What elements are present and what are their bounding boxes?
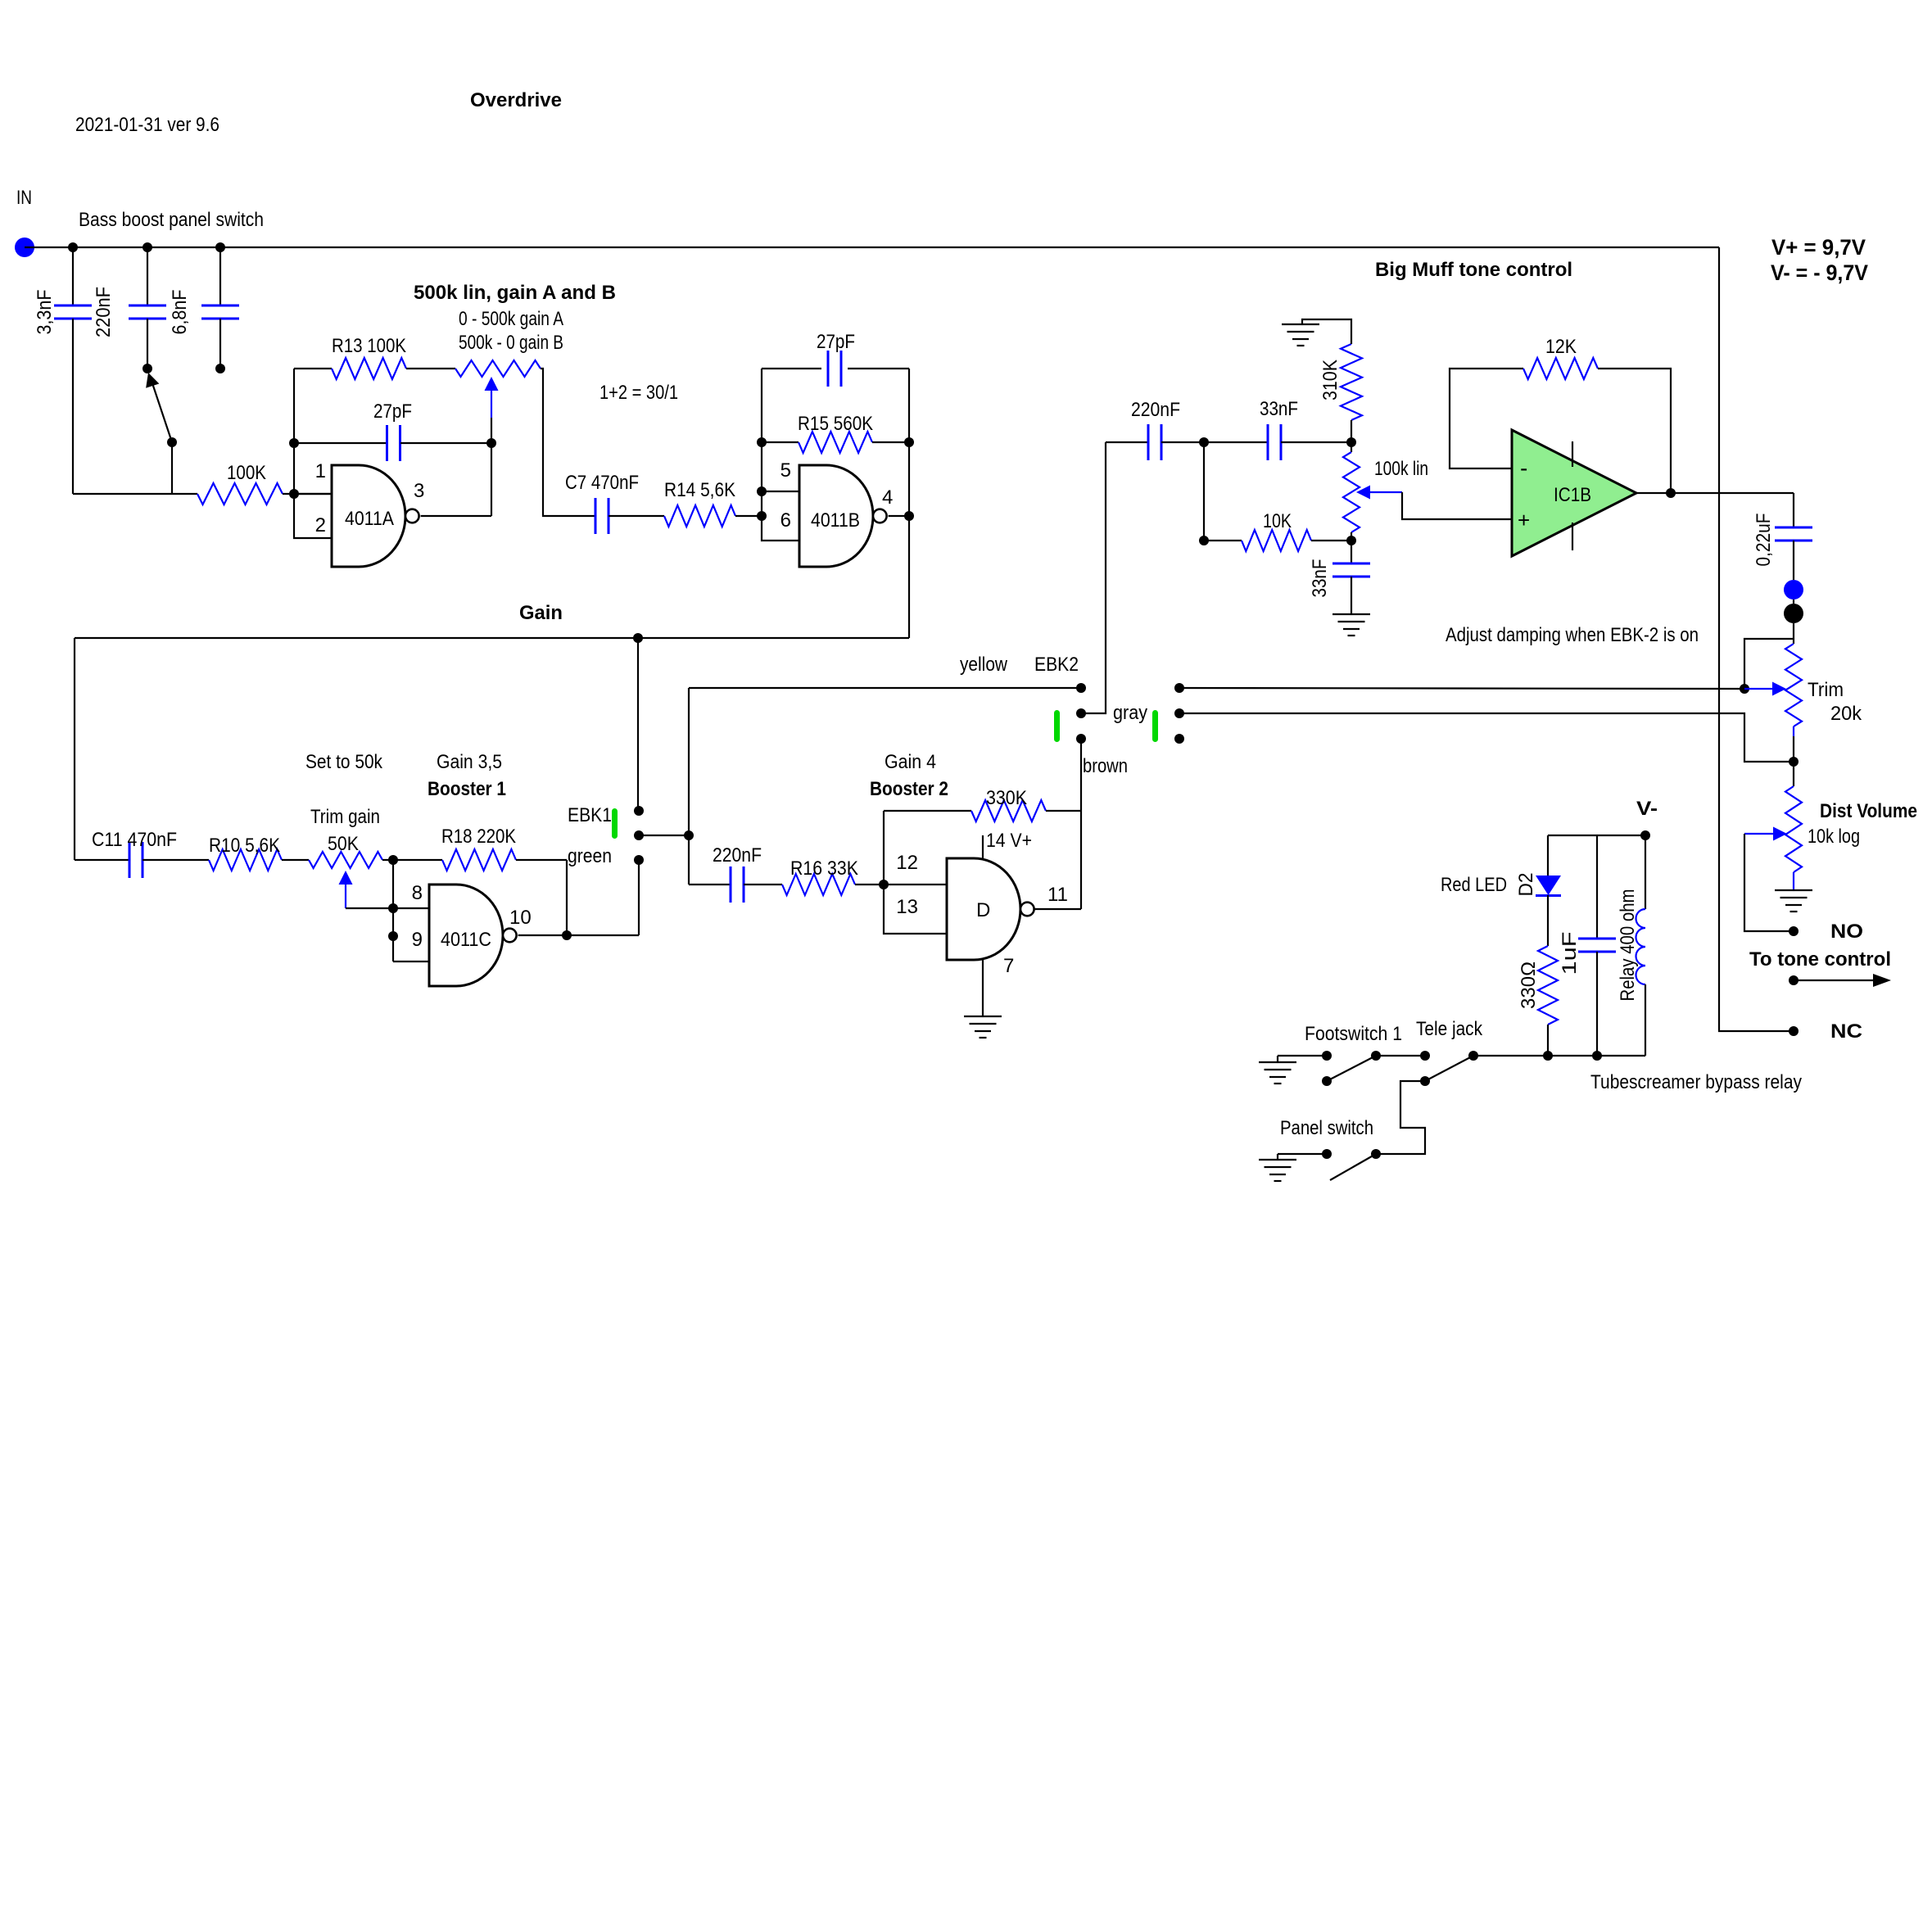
ground footswitch	[1278, 1055, 1327, 1056]
connector EBK2 left bar	[1054, 710, 1060, 742]
wire EBK1 drop from Gain bus	[637, 638, 639, 811]
ground 33nF bottom	[1332, 613, 1370, 615]
pin 7 ground stub	[982, 960, 984, 1016]
svg-text:7: 7	[1003, 955, 1014, 977]
node EBK2 right pins	[1174, 683, 1184, 693]
svg-text:Big Muff tone control: Big Muff tone control	[1375, 259, 1572, 281]
svg-text:IC1B: IC1B	[1554, 484, 1591, 506]
svg-text:1+2 = 30/1: 1+2 = 30/1	[600, 382, 678, 404]
ground 4011D pin7	[964, 1016, 1002, 1017]
svg-text:4011A: 4011A	[345, 508, 394, 530]
svg-text:Trim: Trim	[1808, 679, 1844, 701]
svg-text:4: 4	[882, 486, 893, 509]
svg-text:+: +	[1518, 508, 1530, 532]
svg-text:EBK2: EBK2	[1034, 654, 1079, 676]
wire tone control input drop to EBK2	[1081, 442, 1106, 713]
svg-text:33nF: 33nF	[1260, 398, 1298, 420]
ground 310K top	[1282, 324, 1319, 325]
svg-text:13: 13	[896, 896, 918, 918]
junction dots on top bus	[68, 242, 78, 252]
svg-text:C11 470nF: C11 470nF	[92, 829, 177, 851]
svg-text:10k log: 10k log	[1808, 826, 1860, 848]
capacitor 27pF feedback B	[762, 368, 821, 369]
capacitor C11 470nF	[75, 859, 129, 861]
wire EBK2 right middle to Dist junction	[1179, 713, 1794, 762]
svg-text:2: 2	[315, 514, 326, 536]
wire EBK1 middle pin to booster 2	[639, 835, 689, 836]
svg-text:-: -	[1520, 455, 1527, 481]
resistor R13 100K	[332, 358, 406, 379]
wire op-amp output	[1636, 492, 1794, 494]
svg-text:Trim gain: Trim gain	[310, 806, 380, 828]
svg-text:33nF: 33nF	[1309, 559, 1331, 598]
pin 12 stub	[884, 884, 947, 885]
node EBK2 left pins	[1076, 683, 1086, 693]
potentiometer 500k lin gain A/B	[455, 360, 541, 377]
resistor R10 5,6K	[209, 849, 282, 871]
node tone control arrow	[1789, 975, 1799, 985]
wire Gain bus	[75, 637, 909, 639]
svg-text:100K: 100K	[227, 462, 266, 484]
svg-text:9: 9	[412, 929, 423, 951]
svg-text:2021-01-31 ver 9.6: 2021-01-31 ver 9.6	[75, 114, 219, 136]
svg-text:310K: 310K	[1319, 360, 1342, 400]
svg-text:Gain 4: Gain 4	[885, 751, 936, 773]
svg-text:0 - 500k gain A: 0 - 500k gain A	[459, 308, 563, 330]
svg-text:EBK1: EBK1	[568, 804, 612, 826]
svg-text:3,3nF: 3,3nF	[34, 290, 56, 335]
svg-text:11: 11	[1047, 884, 1068, 906]
node 4011C input column	[388, 855, 398, 865]
wire V- bus	[1548, 835, 1645, 836]
svg-text:Bass boost panel switch: Bass boost panel switch	[79, 209, 264, 231]
resistor 12K feedback	[1450, 369, 1523, 468]
svg-text:4011C: 4011C	[441, 929, 491, 951]
resistor 10K tone	[1203, 442, 1205, 541]
svg-text:NO: NO	[1830, 921, 1863, 943]
svg-text:R16 33K: R16 33K	[790, 857, 858, 880]
capacitor 220nF tone input	[1106, 441, 1148, 443]
op-amp IC1B triangle	[1512, 430, 1636, 556]
wire Gain bus left drop	[74, 638, 75, 860]
resistor R14 5,6K	[664, 505, 735, 527]
svg-text:Relay 400 ohm: Relay 400 ohm	[1617, 889, 1639, 1002]
wire output pin 3	[421, 515, 491, 517]
svg-text:100k lin: 100k lin	[1374, 458, 1428, 480]
svg-text:6,8nF: 6,8nF	[169, 290, 191, 335]
switch bass boost arm	[152, 383, 172, 442]
svg-text:brown: brown	[1083, 755, 1128, 777]
svg-text:330K: 330K	[986, 787, 1027, 809]
svg-text:8: 8	[412, 882, 423, 904]
pin 9 jog	[393, 961, 429, 962]
wire output pin 11	[1034, 908, 1081, 910]
svg-text:D: D	[976, 899, 990, 921]
capacitor 27pF feedback A	[295, 442, 387, 444]
capacitor 33nF tone high	[1204, 441, 1268, 443]
svg-text:R18 220K: R18 220K	[441, 826, 516, 848]
svg-text:20k: 20k	[1830, 703, 1862, 725]
connector EBK2 right bar	[1152, 710, 1158, 742]
capacitor 1uF	[1596, 835, 1598, 939]
connector EBK1 bar	[612, 808, 618, 839]
node EBK1 pins	[634, 806, 644, 816]
capacitor 220nF booster2	[689, 884, 731, 885]
pin 5 stub	[762, 491, 799, 492]
resistor 330K feedback	[883, 811, 885, 885]
op NAND gate U1D 4011D	[947, 858, 1020, 960]
svg-text:12K: 12K	[1545, 336, 1577, 358]
ground panel switch	[1278, 1153, 1327, 1155]
svg-text:330Ω: 330Ω	[1518, 961, 1540, 1009]
svg-text:220nF: 220nF	[713, 844, 762, 866]
svg-text:To tone control: To tone control	[1749, 948, 1891, 971]
capacitor 6,8nF	[219, 247, 221, 305]
svg-text:V-: V-	[1636, 798, 1658, 820]
svg-text:Dist Volume: Dist Volume	[1820, 800, 1917, 822]
svg-text:500k - 0 gain B: 500k - 0 gain B	[459, 332, 563, 354]
resistor 100K	[197, 483, 283, 504]
wire output pin 4	[889, 515, 909, 517]
node NC	[1789, 1026, 1799, 1036]
svg-text:Panel switch: Panel switch	[1280, 1117, 1373, 1139]
pin 1 stub	[294, 493, 332, 495]
resistor R16 33K	[782, 874, 855, 895]
svg-text:Gain 3,5: Gain 3,5	[437, 751, 502, 773]
svg-text:R15 560K: R15 560K	[798, 413, 873, 435]
svg-text:12: 12	[896, 852, 918, 874]
op NAND gate U1A 4011A	[332, 465, 405, 567]
wire pot right end down to C7 row	[541, 369, 595, 516]
node V-	[1640, 830, 1650, 840]
ground Dist Volume	[1775, 889, 1812, 891]
svg-text:1uF: 1uF	[1559, 932, 1581, 975]
wire input row to 100K resistor	[73, 493, 197, 495]
wire brown column from EBK2 to pin 11	[1080, 739, 1082, 909]
op-amp power stubs	[1572, 441, 1573, 467]
svg-text:500k lin, gain A and B: 500k lin, gain A and B	[414, 282, 616, 304]
switch Tele jack	[1420, 1051, 1430, 1061]
svg-text:Booster 1: Booster 1	[428, 778, 506, 800]
wire 4011A output to feedback	[491, 443, 492, 516]
svg-text:C7 470nF: C7 470nF	[565, 472, 639, 494]
svg-text:green: green	[568, 845, 612, 867]
pin 2 jog	[294, 494, 332, 538]
svg-text:Overdrive: Overdrive	[470, 89, 562, 111]
resistor 310K	[1341, 344, 1362, 420]
potentiometer Dist Volume 10k log	[1793, 762, 1794, 786]
wire 4011B right column	[908, 369, 910, 638]
wire R13 to pot 500k	[406, 368, 455, 369]
svg-text:Booster 2: Booster 2	[870, 778, 948, 800]
inductor relay coil 400 ohm	[1645, 835, 1646, 909]
node IN (blue)	[15, 238, 34, 257]
pin 14 V+ stub	[982, 835, 984, 858]
svg-text:27pF: 27pF	[373, 400, 412, 423]
wire relay bottom bus	[1473, 1055, 1645, 1056]
wire footswitch to tele jack	[1376, 1055, 1425, 1056]
node 4011A input junction	[283, 493, 332, 495]
wire tele jack lower to panel switch	[1376, 1081, 1425, 1154]
wire output pin 10	[518, 934, 639, 936]
pin 8 stub	[393, 907, 429, 909]
svg-text:5: 5	[780, 459, 791, 482]
svg-text:Footswitch 1: Footswitch 1	[1305, 1023, 1402, 1045]
svg-text:4011B: 4011B	[811, 509, 860, 532]
wire R18 down to output	[566, 860, 568, 935]
capacitor 0,22uF	[1793, 493, 1794, 527]
op NAND gate U1C 4011C	[429, 885, 503, 986]
svg-text:D2: D2	[1515, 873, 1537, 897]
svg-text:Gain: Gain	[519, 602, 563, 624]
wire bypass column down to NC	[1719, 247, 1794, 1031]
svg-text:50K: 50K	[328, 833, 359, 855]
svg-text:Tele jack: Tele jack	[1416, 1018, 1483, 1040]
svg-text:220nF: 220nF	[1131, 399, 1180, 421]
svg-text:6: 6	[780, 509, 791, 532]
svg-text:Set to 50k: Set to 50k	[305, 751, 383, 773]
op NAND gate U1B 4011B	[799, 465, 873, 567]
svg-text:0,22uF: 0,22uF	[1753, 514, 1775, 567]
capacitor C7 470nF	[595, 498, 597, 534]
wire feedback left column	[293, 369, 295, 494]
svg-text:27pF: 27pF	[817, 331, 855, 353]
diode D2 red LED	[1547, 835, 1549, 876]
resistor R18 220K	[442, 849, 516, 871]
svg-text:yellow: yellow	[960, 654, 1008, 676]
wire booster2 column	[688, 688, 690, 885]
capacitor 33nF tone low	[1351, 541, 1352, 563]
potentiometer Trim gain 50K	[309, 852, 382, 868]
wire EBK2 right top to Trim	[1179, 688, 1744, 689]
capacitor 3,3nF	[72, 247, 74, 305]
switch Footswitch 1	[1322, 1051, 1332, 1061]
svg-text:gray: gray	[1113, 702, 1147, 724]
node 4011B input column	[761, 369, 762, 516]
pin 13 jog	[884, 885, 947, 934]
svg-text:R14 5,6K: R14 5,6K	[664, 479, 735, 501]
resistor 330 ohm	[1538, 946, 1558, 1025]
svg-text:Tubescreamer bypass relay: Tubescreamer bypass relay	[1590, 1071, 1802, 1093]
svg-text:Adjust damping when EBK-2 is o: Adjust damping when EBK-2 is on	[1446, 624, 1699, 646]
pin 6 jog	[762, 516, 799, 541]
svg-text:R13 100K: R13 100K	[332, 335, 406, 357]
svg-text:10: 10	[509, 907, 532, 929]
wire yellow bus to EBK2	[689, 687, 1081, 689]
svg-text:3: 3	[414, 480, 424, 502]
svg-text:Red LED: Red LED	[1441, 874, 1507, 896]
svg-text:IN: IN	[16, 187, 32, 209]
svg-text:V- = - 9,7V: V- = - 9,7V	[1771, 260, 1868, 285]
wire output up to EBK1 green pin	[638, 860, 640, 935]
node NO	[1789, 926, 1799, 936]
svg-text:14 V+: 14 V+	[986, 830, 1032, 852]
svg-text:10K: 10K	[1263, 510, 1292, 532]
svg-text:220nF: 220nF	[93, 287, 115, 337]
wire top bus from IN to bypass column	[25, 247, 1719, 248]
potentiometer Trim 20k	[1785, 644, 1802, 726]
node black output	[1793, 600, 1794, 604]
svg-text:NC: NC	[1830, 1020, 1862, 1043]
node blue output	[1784, 580, 1803, 600]
svg-text:1: 1	[315, 460, 326, 482]
capacitor 220nF	[147, 247, 148, 305]
wire node to Trim top and wiper jog	[1793, 623, 1794, 644]
svg-text:R10 5,6K: R10 5,6K	[209, 835, 280, 857]
switch Panel switch	[1322, 1149, 1332, 1159]
potentiometer 100k lin tone	[1351, 442, 1352, 452]
svg-text:V+ = 9,7V: V+ = 9,7V	[1771, 235, 1866, 260]
resistor R15 560K	[762, 441, 799, 443]
